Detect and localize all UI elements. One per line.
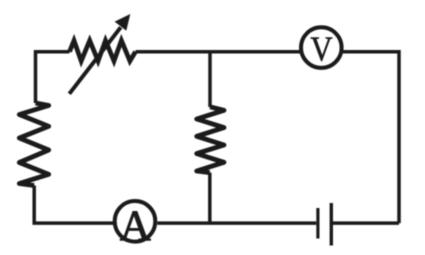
svg-text:A: A (120, 203, 151, 250)
rheostat arrow shaft (69, 27, 120, 94)
wire top middle: rheostat right to voltmeter left edge (136, 50, 301, 54)
wire bottom middle: ammeter to battery (157, 221, 316, 225)
svg-text:V: V (310, 31, 332, 69)
resistor left zigzag (19, 103, 48, 186)
battery cell short (negative) plate (316, 208, 319, 239)
voltmeter circle U1 (301, 27, 342, 68)
node junction middle-top (208, 52, 212, 107)
battery cell long (positive) plate (330, 203, 333, 246)
ammeter circle U2 (115, 201, 156, 242)
resistor middle zigzag (197, 107, 224, 173)
variable resistor (rheostat) zigzag (70, 41, 136, 62)
wire bottom-right: battery to corner (333, 221, 399, 225)
wire top-right: voltmeter right edge to corner, down right side (343, 52, 399, 223)
wire top-left: left wire top + top wire to rheostat (36, 52, 70, 103)
rheostat arrow head (115, 14, 131, 31)
wire bottom-left: corner to ammeter (34, 186, 113, 224)
node junction middle-bottom (208, 173, 212, 224)
